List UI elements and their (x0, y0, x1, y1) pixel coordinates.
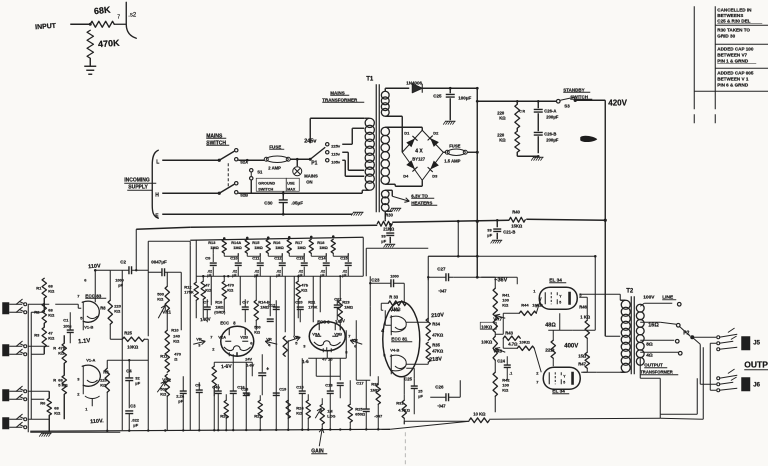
long verticals V1 area (147, 339, 149, 430)
HT rail vertical (476, 88, 478, 277)
svg-text:KΩ: KΩ (48, 312, 55, 317)
svg-text:C7: C7 (203, 299, 209, 304)
svg-text:KΩ: KΩ (301, 287, 308, 292)
T2 secondary winding (636, 304, 644, 312)
svg-text:6.3V TO: 6.3V TO (411, 193, 428, 198)
svg-text:.1: .1 (509, 371, 512, 375)
wire standby to 420V rail (575, 99, 605, 101)
svg-text:21KΩ: 21KΩ (383, 226, 395, 231)
capacitor C21-B 33uF (496, 219, 499, 222)
svg-text:BY127: BY127 (412, 156, 425, 161)
svg-text:4Ω: 4Ω (646, 352, 653, 358)
420V rail vertical (604, 100, 606, 336)
svg-text:SWITCH: SWITCH (570, 94, 588, 99)
svg-text:100V: 100V (643, 294, 655, 300)
wire bias winding to diode (385, 87, 409, 89)
svg-text:5: 5 (563, 380, 565, 384)
fold line dashes (404, 432, 406, 466)
switch P2 contacts (677, 302, 681, 306)
svg-text:C23: C23 (371, 277, 380, 282)
fuse F2 1.5A (443, 151, 446, 153)
V2 heater ticks (228, 352, 230, 356)
svg-text:R10: R10 (171, 327, 179, 332)
svg-text:R34: R34 (432, 321, 440, 326)
svg-text:SUPPLY: SUPPLY (128, 184, 148, 190)
svg-text:C3: C3 (130, 403, 136, 408)
svg-text:C26: C26 (435, 384, 444, 389)
capacitor C21 mid (337, 382, 344, 384)
svg-text:1-6V: 1-6V (246, 363, 254, 367)
svg-text:48Ω: 48Ω (545, 322, 556, 328)
wire HT winding CT to R30 (384, 211, 386, 219)
capacitor C26-A 200uF (537, 101, 539, 108)
svg-text:100μF: 100μF (458, 95, 471, 100)
svg-text:1.1V: 1.1V (78, 338, 91, 345)
wire H (162, 192, 219, 194)
jack J6 (717, 377, 720, 380)
resistor R40 15K (509, 217, 525, 222)
heater winding wires (385, 189, 392, 191)
svg-text:STANDBY: STANDBY (563, 87, 584, 92)
svg-text:BETWEEN V7: BETWEEN V7 (717, 52, 747, 57)
svg-text:BETWEENS: BETWEENS (717, 13, 743, 18)
svg-text:L: L (156, 159, 159, 165)
standby switch S3 (556, 99, 560, 103)
svg-text:R40: R40 (512, 209, 520, 214)
svg-text:OUTP: OUTP (744, 359, 768, 369)
svg-text:R1: R1 (36, 285, 42, 290)
selector contact 115v (326, 151, 329, 154)
svg-text:KΩ: KΩ (160, 391, 167, 396)
svg-text:μF: μF (381, 238, 386, 243)
svg-text:ADDED CAP 005: ADDED CAP 005 (717, 70, 754, 75)
cap bus lower rail (196, 275, 363, 277)
svg-text:R30 TAKEN TO: R30 TAKEN TO (717, 27, 750, 32)
ground (input) (84, 65, 96, 67)
cathode bus EL34 (594, 256, 596, 330)
bridge rectifier 4xBY127 (402, 130, 443, 180)
svg-text:1MΩ: 1MΩ (254, 245, 263, 250)
wire VR7 to grid (494, 332, 496, 336)
svg-text:J6: J6 (753, 382, 760, 388)
svg-text:4 X: 4 X (415, 148, 423, 154)
ground (C21-B) (492, 239, 502, 241)
wire V3 cathode drop (315, 358, 317, 376)
svg-text:C24: C24 (497, 358, 505, 363)
svg-text:ON: ON (306, 179, 312, 184)
T2 primary winding (621, 300, 630, 309)
lamp P1 mains on (296, 159, 298, 166)
V3 cathode network (326, 350, 328, 358)
svg-text:C20: C20 (295, 299, 303, 304)
jack J3 (2, 389, 9, 401)
svg-text:R: R (53, 345, 56, 350)
wire bus segments upper amp (366, 247, 428, 249)
junction C26 R28 ground (517, 155, 538, 157)
svg-text:KΩ: KΩ (114, 308, 121, 313)
svg-text:218V: 218V (429, 356, 443, 363)
wire -36V rail (453, 276, 517, 278)
junction HT rail bus (476, 220, 479, 223)
voltage selector arm (310, 147, 325, 159)
bus junction dots (106, 430, 108, 432)
ground (input bus) (30, 431, 120, 433)
svg-text:C17: C17 (356, 380, 364, 385)
dashed gang link (227, 163, 229, 187)
svg-text:C27: C27 (437, 266, 446, 271)
svg-text:R30: R30 (385, 212, 393, 217)
svg-text:MAX: MAX (287, 187, 296, 191)
screen rail from HT (428, 255, 595, 257)
svg-text:TRANSFORMER: TRANSFORMER (640, 369, 673, 374)
ground (C25) (445, 120, 456, 122)
T1 bias winding (381, 91, 389, 99)
tube V3 ECC83 (309, 322, 345, 351)
svg-text:10KΩ: 10KΩ (481, 324, 493, 329)
svg-text:V4-A: V4-A (390, 307, 399, 312)
switch S1 (250, 169, 253, 172)
wire anode supply top (95, 269, 110, 271)
wire diode to C25 and HT rail (422, 87, 477, 89)
svg-text:MAINS: MAINS (330, 90, 345, 95)
svg-text:R2: R2 (34, 309, 40, 314)
svg-text:115v: 115v (331, 151, 340, 156)
svg-text:P1: P1 (311, 160, 317, 166)
svg-text:FUSE: FUSE (269, 144, 281, 149)
resistor R30 21K (377, 221, 392, 226)
svg-text:D1: D1 (404, 130, 410, 135)
svg-text:S1: S1 (257, 169, 263, 174)
svg-text:10KΩ: 10KΩ (127, 344, 139, 349)
svg-text:47KΩ: 47KΩ (432, 348, 444, 353)
svg-text:LOG: LOG (327, 414, 335, 418)
svg-text:V3B: V3B (334, 331, 342, 336)
svg-text:D2: D2 (433, 130, 439, 135)
svg-text:KΩ: KΩ (54, 410, 61, 415)
svg-text:PIN 6 & GRND: PIN 6 & GRND (717, 82, 749, 87)
wire stage verticals A (210, 276, 212, 305)
switch S2A (218, 159, 221, 162)
wire L switch to fuse (238, 159, 264, 161)
svg-text:KΩ: KΩ (48, 288, 55, 293)
svg-text:R6: R6 (40, 400, 46, 405)
wire H to transformer (238, 192, 362, 194)
tube V5 EL34 (539, 287, 577, 309)
svg-text:R16: R16 (215, 300, 222, 304)
svg-text:C2: C2 (120, 259, 126, 264)
wire primary bottom (361, 190, 363, 193)
svg-text:μF: μF (276, 273, 280, 277)
wire V1B anode up (94, 270, 96, 302)
jack J2 (2, 344, 9, 356)
svg-text:R8: R8 (100, 305, 106, 310)
svg-text:·047: ·047 (437, 403, 446, 408)
jack J1 (2, 302, 9, 314)
svg-text:GROUND: GROUND (258, 181, 275, 185)
svg-text:R47: R47 (578, 361, 586, 366)
svg-text:1000: 1000 (390, 274, 398, 278)
T1 primary winding (365, 118, 374, 127)
table row rules (715, 24, 768, 26)
svg-text:C1: C1 (63, 317, 69, 322)
wire primary top (309, 118, 311, 143)
svg-text:V2B: V2B (240, 334, 248, 339)
svg-text:C R: C R (519, 109, 525, 113)
wire to ground (89, 58, 91, 66)
svg-text:175K: 175K (184, 289, 194, 294)
svg-text:V2A: V2A (218, 334, 226, 339)
fuse F1 2A (266, 156, 288, 162)
svg-text:C25: C25 (404, 376, 412, 381)
svg-text:CANCELLED IN: CANCELLED IN (717, 7, 752, 12)
svg-text:1-6V: 1-6V (221, 363, 233, 370)
ground (C26) (533, 156, 544, 158)
svg-text:1 KΩ: 1 KΩ (580, 314, 591, 319)
bottom bus (30, 429, 390, 431)
T1 heater winding (381, 190, 389, 198)
selector contact 225v (326, 143, 329, 146)
svg-text:1.5 AMP: 1.5 AMP (444, 158, 460, 163)
svg-text:C22: C22 (334, 296, 342, 301)
svg-text:R44: R44 (521, 302, 529, 307)
selector wiring to primary (342, 143, 352, 145)
svg-text:USE: USE (287, 181, 295, 185)
svg-text:200μF: 200μF (546, 137, 559, 142)
wire V5 anode to T2 (579, 293, 620, 295)
svg-text:110V: 110V (88, 263, 101, 270)
wire input stub (70, 23, 90, 25)
wire R47 to V6 anode (583, 371, 587, 373)
svg-text:C25: C25 (433, 93, 442, 98)
gain pot VR9 (320, 404, 324, 424)
svg-text:1MΩ: 1MΩ (275, 245, 284, 250)
svg-text:R46: R46 (579, 304, 587, 309)
jack J5 (717, 336, 720, 339)
wire mid connects (316, 375, 340, 377)
svg-text:1M: 1M (327, 409, 332, 413)
secondary tap wires (640, 303, 644, 306)
vertical wire x148 (135, 229, 137, 270)
svg-text:KΩ: KΩ (296, 410, 303, 415)
svg-text:KΩ: KΩ (499, 115, 506, 120)
svg-text:C5: C5 (195, 382, 201, 387)
T1 HT winding (381, 127, 389, 135)
svg-text:25: 25 (418, 389, 422, 393)
grid wire ECC81 (381, 309, 383, 311)
T2 core (630, 296, 632, 374)
svg-text:KΩ: KΩ (502, 302, 509, 307)
svg-text:1MΩ: 1MΩ (215, 305, 223, 309)
tube V6 EL34 (543, 367, 580, 389)
svg-text:.s2: .s2 (128, 12, 137, 18)
svg-text:500: 500 (254, 325, 260, 329)
svg-text:68K: 68K (93, 5, 111, 17)
svg-text:ECC: ECC (220, 320, 229, 325)
svg-text:J5: J5 (753, 340, 760, 346)
svg-text:V1-B: V1-B (84, 324, 93, 329)
svg-text:V4-B: V4-B (390, 347, 399, 352)
ink blob (580, 136, 597, 142)
resistor R19 (212, 366, 216, 386)
jack J4 (2, 417, 9, 429)
capacitor C8 electrolytic (261, 354, 263, 372)
table bottom rule (694, 90, 768, 92)
svg-text:C9: C9 (205, 255, 211, 260)
HT bus wire (136, 227, 190, 229)
svg-text:−36V: −36V (494, 277, 507, 283)
svg-text:225v: 225v (331, 143, 341, 148)
svg-text:C18: C18 (241, 387, 248, 391)
wire fuse to selector (290, 158, 310, 160)
svg-text:16Ω: 16Ω (648, 322, 659, 328)
wire 420V to T2 center tap (605, 335, 620, 337)
svg-text:S3: S3 (564, 103, 570, 108)
HT rail to standby branch (477, 100, 556, 102)
ground (mains earth) (353, 211, 364, 213)
wire bus to screen rail (457, 221, 459, 256)
svg-text:BETWEEN V 1: BETWEEN V 1 (717, 76, 749, 81)
wire L (162, 159, 219, 161)
T1 core (375, 84, 377, 212)
svg-text:4.7Ω: 4.7Ω (508, 341, 518, 346)
svg-text:400V: 400V (564, 343, 578, 349)
svg-text:420V: 420V (608, 98, 627, 107)
svg-text:C15: C15 (296, 384, 304, 389)
svg-text:47KΩ: 47KΩ (432, 332, 444, 337)
P2 common (690, 335, 694, 339)
resistor cap joins (223, 253, 225, 256)
svg-text:D4: D4 (403, 173, 409, 178)
svg-text:GRID 30: GRID 30 (717, 33, 735, 38)
resistor 470K (sketch) (87, 30, 93, 58)
svg-text:0047μF: 0047μF (151, 259, 167, 264)
svg-text:R25: R25 (124, 330, 132, 335)
svg-text:R 33: R 33 (389, 294, 399, 299)
svg-text:μF: μF (232, 273, 236, 277)
svg-text:.05μF: .05μF (291, 200, 303, 205)
junction dots bus (202, 275, 204, 277)
svg-text:110V.: 110V. (90, 418, 104, 425)
table border left (693, 6, 695, 109)
svg-text:ECC 83: ECC 83 (85, 293, 102, 298)
svg-text:105v: 105v (331, 159, 341, 164)
svg-text:R3: R3 (34, 332, 40, 337)
output ground return (710, 342, 716, 344)
svg-text:KΩ: KΩ (499, 137, 506, 142)
secondary bottom wire (639, 358, 641, 378)
svg-text:KΩ: KΩ (173, 338, 180, 343)
svg-text:V1-A: V1-A (86, 357, 95, 362)
svg-text:1MΩ: 1MΩ (233, 245, 242, 250)
svg-text:1MΩ: 1MΩ (297, 245, 306, 250)
ground (heater) (391, 207, 401, 209)
svg-text:1MΩ: 1MΩ (210, 245, 219, 250)
wire bridge top to HT winding (385, 126, 422, 128)
use max label box (286, 178, 299, 191)
svg-text:ADDED CAP 100: ADDED CAP 100 (717, 46, 754, 51)
svg-text:C26-A: C26-A (544, 108, 556, 113)
svg-text:μF: μF (418, 394, 423, 398)
ground switch label box (256, 178, 286, 191)
svg-text:μF: μF (487, 232, 492, 237)
table border inner (714, 6, 716, 109)
svg-text:5: 5 (559, 300, 561, 304)
svg-text:1MΩ: 1MΩ (319, 245, 328, 250)
svg-text:140V: 140V (200, 316, 211, 322)
dropper top rail (190, 237, 363, 240)
capacitor C26-B 200uF (534, 131, 543, 133)
wire grid V1B (55, 303, 78, 305)
HT feed ECC81 (427, 256, 429, 318)
svg-text:D3: D3 (432, 173, 438, 178)
svg-text:H: H (155, 192, 159, 198)
svg-text:INCOMING: INCOMING (124, 177, 150, 183)
svg-text:V3A: V3A (312, 331, 320, 336)
svg-text:C12: C12 (268, 303, 275, 307)
svg-text:10KΩ: 10KΩ (519, 339, 530, 344)
svg-text:μF: μF (342, 273, 346, 277)
wire V6 anode to T2 (581, 371, 596, 373)
svg-text:KΩ: KΩ (227, 287, 234, 292)
wire E (162, 213, 352, 215)
svg-text:2 AMP: 2 AMP (268, 165, 281, 170)
svg-text:24V: 24V (245, 357, 252, 361)
svg-text:HEATERS: HEATERS (411, 200, 432, 205)
svg-text:MAINS: MAINS (304, 173, 318, 178)
svg-text:10 KΩ: 10 KΩ (473, 411, 486, 416)
svg-text:R43: R43 (505, 330, 513, 335)
feedback box (659, 378, 661, 414)
screen resistor wires (559, 313, 561, 330)
wire fuse to HT rail (467, 151, 477, 153)
svg-text:KΩ: KΩ (157, 296, 164, 301)
svg-text:μF: μF (133, 422, 138, 427)
svg-text:15KΩ: 15KΩ (511, 223, 523, 228)
ECC81 cathode wires (385, 324, 391, 326)
svg-text:C30: C30 (264, 200, 273, 205)
svg-text:KΩ: KΩ (100, 382, 107, 387)
wire C23 node (369, 276, 371, 306)
svg-text:μF: μF (320, 273, 324, 277)
vertical wire x122 (121, 270, 123, 430)
bracket incoming supply (152, 150, 158, 218)
wire V3 anode right (339, 326, 341, 330)
resistor R21b (283, 336, 287, 356)
wire bridge bottom to HT winding bottom (385, 183, 395, 185)
resistor R26 (286, 400, 290, 418)
svg-text:KΩ: KΩ (48, 335, 55, 340)
svg-text:1-6: 1-6 (302, 359, 309, 364)
svg-text:+: + (266, 366, 269, 372)
svg-text:R35: R35 (432, 342, 440, 347)
svg-text:470K: 470K (98, 38, 121, 50)
svg-text:PIN 1 & GRND: PIN 1 & GRND (717, 58, 749, 63)
wire S1 down to C30 (282, 191, 284, 196)
svg-text:7: 7 (117, 14, 120, 20)
svg-text:·047: ·047 (438, 288, 447, 293)
svg-text:KΩ: KΩ (502, 387, 509, 392)
V1 cathode cap (85, 396, 99, 398)
svg-text:8Ω: 8Ω (646, 341, 653, 347)
wire to grid (114, 2, 136, 38)
svg-text:C25 & R30 DEL: C25 & R30 DEL (717, 18, 750, 23)
wire bias bottom to bridge (385, 115, 402, 117)
svg-text:OUTPUT: OUTPUT (644, 362, 663, 367)
svg-text:μF: μF (135, 380, 140, 385)
svg-text:R: R (53, 377, 56, 382)
svg-text:210V: 210V (431, 312, 445, 319)
supply rail to dropper (148, 240, 190, 242)
